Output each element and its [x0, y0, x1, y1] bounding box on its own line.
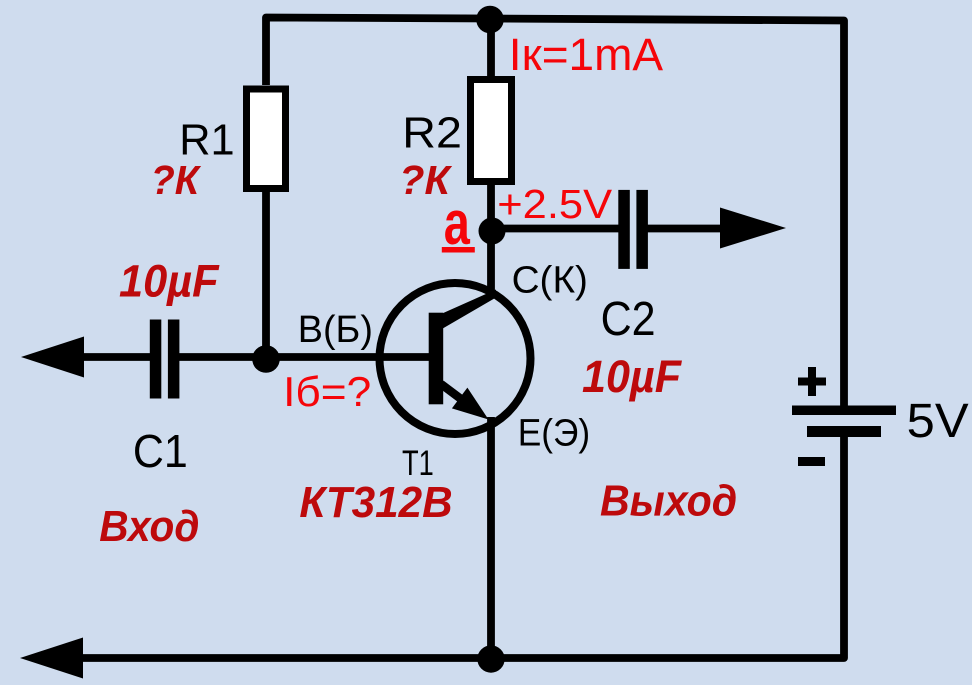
svg-text:C1: C1: [133, 425, 188, 477]
svg-text:КТ312В: КТ312В: [299, 478, 452, 527]
svg-text:T1: T1: [402, 444, 434, 483]
svg-text:B(Б): B(Б): [298, 309, 373, 351]
svg-text:10µF: 10µF: [119, 256, 220, 307]
svg-text:Вход: Вход: [99, 502, 199, 551]
svg-text:Выход: Выход: [600, 477, 737, 526]
svg-text:E(Э): E(Э): [518, 413, 591, 455]
svg-text:10µF: 10µF: [582, 351, 682, 402]
svg-text:R2: R2: [402, 109, 462, 158]
svg-text:?К: ?К: [399, 157, 452, 203]
svg-text:?К: ?К: [151, 157, 202, 203]
svg-text:+2.5V: +2.5V: [497, 181, 612, 227]
svg-text:Iк=1mA: Iк=1mA: [509, 29, 663, 80]
svg-text:5V: 5V: [907, 395, 969, 448]
svg-text:C2: C2: [601, 293, 656, 346]
svg-text:Iб=?: Iб=?: [283, 368, 371, 415]
svg-text:C(К): C(К): [512, 260, 588, 302]
